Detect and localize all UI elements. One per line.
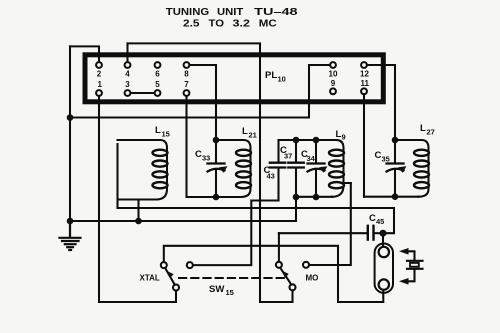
label SW15 [209, 284, 234, 297]
svg-text:27: 27 [427, 128, 435, 137]
pin 12 [361, 62, 367, 68]
svg-text:12: 12 [360, 70, 369, 79]
svg-text:34: 34 [307, 154, 316, 163]
svg-text:33: 33 [202, 154, 210, 163]
node C33 top [213, 137, 220, 144]
wire pin2 to bus [70, 46, 99, 61]
svg-text:10: 10 [329, 70, 338, 79]
label L21 [242, 126, 257, 140]
svg-text:8: 8 [184, 70, 189, 79]
svg-text:10: 10 [278, 75, 286, 84]
svg-text:7: 7 [184, 80, 189, 89]
capacitor C43 (fixed) [270, 140, 286, 201]
svg-text:TU–48: TU–48 [254, 7, 298, 18]
switch SW15 XTAL position [161, 262, 193, 290]
node C37 bottom [293, 194, 300, 201]
svg-text:SW: SW [209, 284, 224, 295]
svg-text:21: 21 [249, 131, 257, 140]
wire pin4 up [126, 43, 128, 61]
wire pin12 over to C35 top [367, 65, 395, 140]
wire mid rail L15-left to C45 junction [118, 208, 395, 233]
inductor L21 [187, 140, 252, 197]
wire C43 bottom to XTAL throw contact [193, 201, 279, 266]
inductor L15 [118, 140, 168, 208]
capacitor C34 (variable) [308, 140, 328, 197]
wire pin1 down to XTAL pole [99, 96, 176, 302]
label C43 [264, 165, 275, 181]
svg-text:15: 15 [226, 288, 234, 297]
ground symbol [60, 221, 81, 250]
svg-text:3.2: 3.2 [233, 19, 251, 30]
svg-text:45: 45 [376, 217, 384, 226]
node C45 junction [380, 230, 387, 237]
svg-text:35: 35 [382, 155, 390, 164]
wire tank4 bottom rail [364, 196, 419, 198]
pin 2 [96, 62, 102, 68]
node C34 top [313, 137, 320, 144]
node C35 top [392, 137, 399, 144]
pin 6 [155, 62, 161, 68]
wire lower rail ground to riser [70, 220, 296, 222]
label C37 [280, 145, 292, 161]
dashed gang line SW15 [179, 277, 285, 279]
svg-text:XTAL: XTAL [140, 274, 160, 283]
wire pin10 to ground rail [309, 65, 330, 118]
pin 10 [330, 62, 336, 68]
svg-text:11: 11 [361, 79, 370, 88]
wire tank3 top rail [279, 139, 337, 141]
wire pin8 over to C33 branch [189, 65, 216, 140]
wire L15 bottom drop [133, 200, 139, 222]
node bus-lower-rail junction [67, 218, 74, 225]
svg-text:2: 2 [97, 70, 102, 79]
wire pin4 over box down to switch MO pole [128, 43, 293, 302]
wire C45 corner down to MO top contact [278, 233, 280, 261]
node C35 bottom [392, 193, 399, 200]
svg-text:MO: MO [306, 274, 319, 283]
svg-text:C: C [195, 149, 202, 160]
capacitor C37 (fixed) [288, 140, 304, 197]
wire XTAL contact riser to crystal holder bottom [164, 246, 383, 302]
title 2.5 TO 3.2 MC [183, 19, 277, 30]
switch SW15 MO position [276, 262, 309, 291]
wire tank3 bottom rail [296, 196, 332, 198]
svg-text:L: L [242, 126, 248, 137]
svg-text:MC: MC [259, 19, 277, 30]
label C33 [195, 149, 210, 163]
wire pin3 to pin5 [131, 92, 155, 94]
node C33 bottom [213, 194, 220, 201]
node L15-rail junction [135, 218, 142, 225]
pin 8 [184, 62, 190, 68]
svg-text:43: 43 [267, 172, 275, 181]
label L27 [420, 123, 435, 137]
title TUNING UNIT TU-48 [166, 7, 299, 18]
svg-text:2.5: 2.5 [183, 19, 200, 30]
label L9 [336, 129, 346, 142]
svg-text:C: C [369, 213, 376, 224]
node C37 top [293, 137, 300, 144]
node C34 bottom [313, 194, 320, 201]
label L15 [155, 125, 170, 139]
svg-text:L: L [155, 125, 161, 136]
label PL10 [265, 70, 286, 84]
wire ground rail [70, 116, 309, 118]
svg-text:1: 1 [98, 80, 103, 89]
label C34 [301, 149, 316, 163]
pin 4 [125, 62, 131, 68]
svg-text:TUNING: TUNING [166, 7, 210, 18]
svg-text:TO: TO [209, 19, 225, 30]
svg-text:PL: PL [265, 70, 277, 81]
label C45 [369, 213, 384, 226]
label C35 [375, 150, 390, 164]
wire tank3 bottom riser [295, 197, 297, 221]
wire ground bus left [69, 46, 71, 237]
capacitor C35 (variable) [387, 140, 407, 197]
svg-text:L: L [420, 123, 426, 134]
connector PL10 box [85, 55, 383, 102]
svg-text:4: 4 [125, 70, 130, 79]
wire pin11 down to tank4 bottom [363, 95, 365, 197]
svg-text:15: 15 [162, 130, 170, 139]
crystal holder [375, 235, 393, 293]
svg-text:9: 9 [331, 79, 336, 88]
wire pin7 down to tank2 bottom rail [185, 96, 187, 197]
svg-text:37: 37 [284, 152, 292, 161]
wire L9 bottom down to MO throw contact [309, 183, 351, 265]
capacitor C33 (variable) [208, 140, 228, 197]
svg-text:C: C [375, 150, 382, 161]
inductor L9 [329, 140, 351, 197]
svg-text:5: 5 [155, 80, 160, 89]
svg-text:UNIT: UNIT [217, 7, 243, 18]
svg-text:9: 9 [342, 133, 346, 142]
inductor L27 [395, 140, 429, 197]
svg-text:6: 6 [155, 70, 160, 79]
svg-text:3: 3 [125, 80, 130, 89]
node bus-rail junction [67, 114, 74, 121]
capacitor C45 [279, 226, 383, 240]
crystal Y1 symbol [399, 248, 423, 285]
